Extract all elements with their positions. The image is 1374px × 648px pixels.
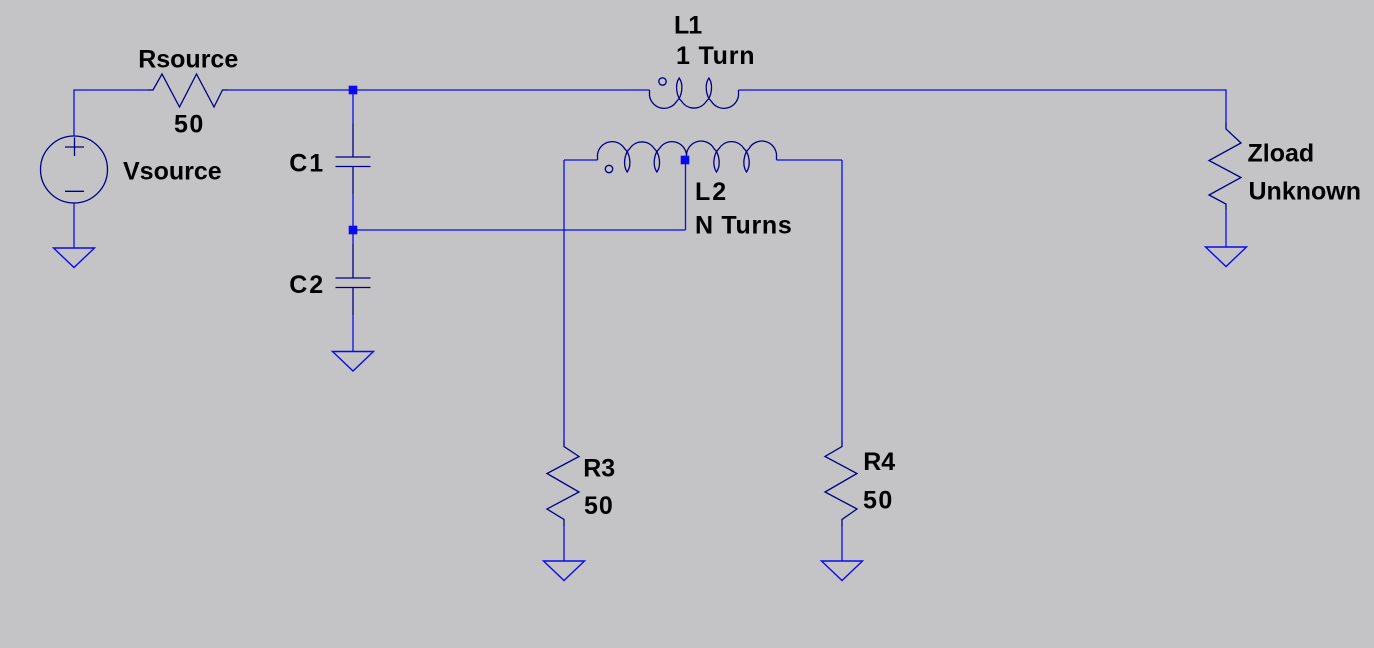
ground (Vsource)	[54, 248, 95, 268]
wire	[685, 160, 687, 230]
svg-text:L2: L2	[695, 178, 728, 206]
inductor L2 right half	[687, 141, 777, 172]
wire	[739, 89, 1227, 91]
capacitor C1	[352, 124, 354, 158]
node B (C1-C2 junction)	[349, 226, 358, 235]
svg-text:N Turns: N Turns	[695, 212, 793, 240]
plus sign	[74, 138, 76, 157]
wire	[352, 90, 354, 124]
ground (Zload)	[1206, 247, 1247, 267]
phase dot (L1)	[659, 78, 666, 85]
ground (R4)	[822, 561, 863, 581]
wire	[841, 526, 843, 561]
wire	[228, 89, 650, 91]
ground (C2)	[333, 352, 374, 372]
svg-text:Zload: Zload	[1248, 140, 1315, 168]
ground (R3)	[544, 561, 585, 581]
svg-text:Unknown: Unknown	[1249, 178, 1362, 206]
wire	[563, 160, 565, 441]
wire	[352, 230, 354, 244]
node C (L2 center tap)	[681, 156, 690, 165]
wire	[564, 159, 598, 161]
svg-text:C1: C1	[289, 150, 325, 178]
resistor R4	[825, 441, 857, 527]
voltage source Vsource	[41, 136, 108, 203]
capacitor C2	[352, 244, 354, 278]
resistor R3	[547, 441, 579, 527]
svg-text:50: 50	[584, 492, 614, 520]
minus sign	[65, 190, 84, 192]
svg-text:50: 50	[863, 487, 894, 515]
resistor Rsource	[148, 74, 229, 107]
svg-text:R3: R3	[583, 455, 615, 483]
svg-text:R4: R4	[863, 448, 895, 476]
svg-text:C2: C2	[289, 271, 325, 299]
wire	[73, 203, 75, 248]
resistor Zload	[1209, 123, 1241, 211]
phase dot (L2)	[605, 165, 612, 172]
wire	[1225, 210, 1227, 247]
svg-text:Rsource: Rsource	[138, 46, 238, 74]
node A (top of C1)	[349, 86, 358, 95]
svg-text:1 Turn: 1 Turn	[676, 42, 755, 70]
inductor L2 left half	[598, 142, 687, 172]
wire	[563, 526, 565, 561]
wire	[73, 90, 75, 136]
svg-text:50: 50	[174, 111, 205, 139]
wire	[352, 194, 354, 230]
svg-text:Vsource: Vsource	[123, 158, 222, 186]
inductor L1	[650, 78, 739, 108]
wire	[352, 315, 354, 352]
wire	[777, 159, 843, 161]
svg-text:L1: L1	[674, 12, 702, 40]
